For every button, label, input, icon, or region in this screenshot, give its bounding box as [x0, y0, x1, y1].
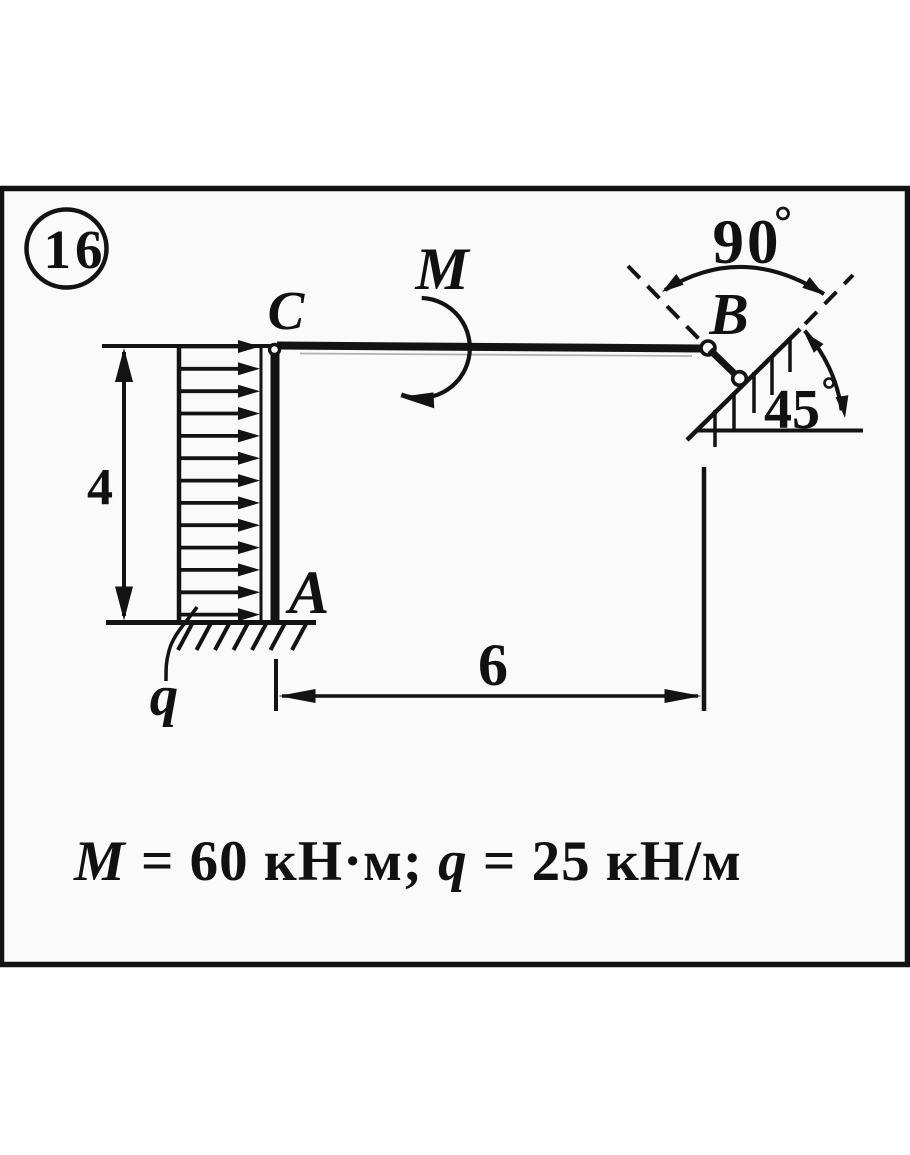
svg-text:M = 60 кН·м; q = 25 кН/м: M = 60 кН·м; q = 25 кН/м	[73, 830, 742, 893]
ground line at A	[106, 620, 316, 625]
svg-text:A: A	[285, 560, 330, 627]
pin C	[270, 345, 280, 355]
q leader line	[166, 607, 197, 681]
arrowhead up (dim 4)	[115, 348, 133, 382]
roller circle	[733, 372, 747, 386]
90 degree arc	[665, 267, 824, 294]
load arrow 9 head	[238, 519, 260, 532]
load arrow 1 shaft	[180, 345, 241, 349]
load arrow 8 shaft	[180, 501, 241, 505]
ground hatch stroke 3	[215, 624, 229, 650]
load arrow 12 shaft	[180, 590, 241, 594]
load arrow 13 head	[238, 608, 260, 621]
load arrow 9 shaft	[180, 523, 241, 527]
load arrow 4 head	[238, 407, 260, 420]
load arrow 6 shaft	[180, 456, 241, 460]
incline hatch stroke at x=754	[752, 372, 756, 413]
support baseline	[696, 429, 863, 433]
svg-text:M: M	[414, 236, 471, 302]
dashed ray left (link axis)	[628, 266, 699, 339]
extension line below A (dim 6 left)	[274, 659, 278, 711]
incline hatch stroke at x=772	[770, 355, 774, 395]
moment arc	[401, 298, 470, 398]
distributed load q: right boundary line	[260, 347, 263, 621]
load arrow 5 shaft	[180, 434, 241, 438]
extension line below B (dim 6 right)	[702, 467, 707, 711]
inclined surface line	[687, 329, 800, 440]
load arrow 10 shaft	[180, 546, 241, 550]
load arrow 11 shaft	[180, 568, 241, 572]
incline hatching	[715, 337, 790, 447]
svg-text:4: 4	[87, 459, 113, 516]
incline hatch stroke at x=734	[732, 393, 736, 431]
distributed load q: left boundary line	[177, 347, 182, 622]
degree ring for 90	[778, 208, 789, 219]
roller link	[710, 350, 738, 377]
ground hatch stroke 4	[234, 624, 248, 650]
load arrow 8 head	[238, 496, 260, 509]
svg-text:C: C	[268, 280, 306, 341]
90 arc right arrowhead	[802, 277, 827, 300]
load arrow 7 shaft	[180, 479, 241, 483]
90 arc left arrowhead	[658, 274, 683, 297]
extension line top (dimension 4)	[102, 344, 272, 348]
load arrow 10 head	[238, 541, 260, 554]
ground hatch stroke 1	[178, 624, 192, 650]
load arrow 7 head	[238, 474, 260, 487]
arrowhead left (dim 6)	[279, 689, 316, 703]
beam CB	[277, 346, 701, 349]
svg-text:B: B	[708, 281, 748, 347]
load arrow 4 shaft	[180, 412, 241, 416]
load arrow 5 head	[238, 429, 260, 442]
load arrow 13 shaft	[180, 613, 241, 617]
svg-text:q: q	[150, 665, 179, 728]
ground hatch stroke 7	[292, 624, 306, 650]
45 arc bottom arrowhead	[836, 395, 852, 419]
load arrow 2 shaft	[180, 367, 241, 371]
load arrow 3 shaft	[180, 389, 241, 393]
dashed ray right (incline extension)	[805, 275, 853, 324]
ground hatch stroke 2	[197, 624, 211, 650]
load arrow 12 head	[238, 586, 260, 599]
degree ring for 45	[825, 379, 834, 388]
incline hatch stroke at x=790	[788, 337, 792, 372]
45 arc top arrowhead	[799, 328, 823, 353]
load arrow 2 head	[238, 362, 260, 375]
load arrow 3 head	[238, 385, 260, 398]
load arrow 6 head	[238, 452, 260, 465]
svg-text:6: 6	[478, 632, 508, 698]
ground hatch stroke 6	[271, 624, 285, 650]
arrowhead down (dim 4)	[115, 587, 133, 621]
thin scan shadow under beam	[300, 354, 692, 357]
column AC	[271, 348, 280, 622]
moment arrowhead	[399, 390, 435, 408]
svg-text:16: 16	[44, 219, 107, 280]
load arrow 11 head	[238, 563, 260, 576]
dimension line 6	[282, 694, 698, 698]
problem number circle 16	[27, 210, 107, 288]
svg-text:90: 90	[713, 207, 782, 277]
incline hatch stroke at x=715	[713, 410, 717, 447]
load arrow 1 head	[238, 340, 260, 353]
45 degree arc	[805, 331, 842, 411]
arrowhead right (dim 6)	[665, 689, 702, 703]
load arrows	[180, 340, 260, 621]
ground hatching	[178, 624, 306, 650]
ground hatch stroke 5	[252, 624, 266, 650]
svg-text:45: 45	[764, 379, 820, 441]
dimension line 4	[122, 352, 126, 616]
border frame	[2, 189, 908, 965]
pin B	[701, 341, 715, 355]
